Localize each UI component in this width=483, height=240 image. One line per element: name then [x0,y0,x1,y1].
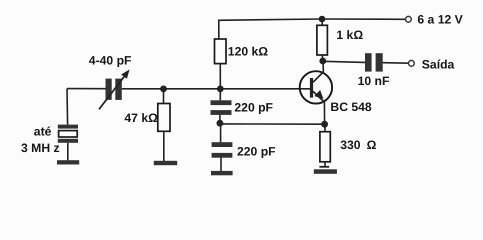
wire 330 bottom stem [324,162,326,167]
node supply rail junction [319,16,326,23]
resistor R 330 [320,132,330,162]
svg-text:120 kΩ: 120 kΩ [228,45,268,59]
ground 47k [154,161,177,165]
transistor emitter stroke [313,91,325,102]
transistor collector stroke [313,72,324,83]
capacitor C 220pF upper plate1 [211,100,232,105]
wire emitter down [323,102,325,125]
wire between plates junction [219,115,221,124]
capacitor C 220pF lower plate2 [212,153,233,158]
svg-text:4-40 pF: 4-40 pF [89,54,132,68]
crystal XTAL body [59,131,78,137]
ground 330 bar [314,169,337,174]
capacitor C 10nF plate2 [376,53,383,71]
transistor base bar [310,78,313,98]
wire 120k top stem [218,20,220,40]
wire 1k bottom stem [321,55,323,61]
wire output left [323,61,365,62]
crystal XTAL bottom plate [58,139,78,143]
wire 120k bottom stem [219,64,221,89]
node collector junction [319,58,326,65]
node supply terminal [406,16,412,22]
svg-text:330 Ω: 330 Ω [340,138,376,152]
wire base line left of trimmer [67,88,106,90]
wire crystal drop [66,89,69,125]
capacitor trimmer 4-40pF plate1 [106,79,112,100]
svg-text:10 nF: 10 nF [358,74,390,88]
trimmer arrow [99,76,125,109]
wire output right [383,62,409,65]
transistor Q1 BC548 circle [300,71,332,103]
wire 47k top stem [163,89,165,104]
svg-text:6 a 12 V: 6 a 12 V [417,12,463,26]
node junction 220pF middle [217,120,224,127]
ground 330 upper line [319,166,329,168]
resistor R 47k [158,104,170,132]
wire base line right of trimmer [122,88,310,90]
ground crystal [57,160,79,164]
crystal XTAL top plate [58,125,78,129]
wire collector up [322,61,324,72]
svg-text:até: até [34,125,52,139]
capacitor C 220pF lower plate1 [212,142,233,147]
wire top supply rail [218,19,406,20]
resistor R 120k [215,39,227,64]
wire to ground 220pF [220,158,222,172]
wire 220pF lower stem [220,125,222,143]
svg-text:1 kΩ: 1 kΩ [336,28,363,42]
transistor emitter arrowhead [314,90,323,99]
svg-text:47 kΩ: 47 kΩ [124,111,158,125]
wire crystal to ground [67,143,69,161]
node junction 120k/220pF/base [217,86,224,93]
wire 1k top stem [321,19,323,25]
node output terminal [409,60,415,66]
svg-text:220 pF: 220 pF [237,144,276,158]
resistor R 1k [317,25,328,55]
ground 220pF [211,171,233,175]
svg-text:220 pF: 220 pF [234,101,273,115]
wire 330 top stem [324,124,326,131]
capacitor trimmer 4-40pF plate2 [115,79,122,100]
svg-text:Saída: Saída [422,58,455,72]
node junction 47k [160,86,167,93]
wire 47k bottom stem [163,131,165,161]
svg-text:BC 548: BC 548 [330,100,372,114]
node emitter junction [321,121,328,128]
wire middle feedback line [220,123,325,125]
wire 220pF top stem [219,89,221,100]
capacitor C 10nF plate1 [365,53,372,71]
capacitor C 220pF upper plate2 [211,110,232,115]
svg-text:3 MH z: 3 MH z [21,141,60,155]
